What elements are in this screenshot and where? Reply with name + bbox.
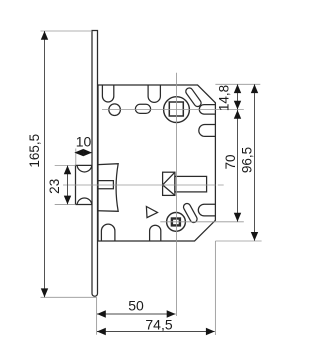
right edge notch N1 (199, 105, 215, 115)
arrow 96,5 bottom (251, 232, 258, 241)
cover hole circle (109, 104, 121, 116)
ext latch face vertical (75, 149, 77, 166)
ext case top right (215, 83, 260, 85)
triangle mark (146, 207, 157, 218)
ext latch top (55, 165, 76, 167)
faceplate (92, 31, 98, 297)
dim line 23 (67, 166, 69, 205)
dimension lines (45, 31, 255, 332)
arrow 50 left (97, 310, 106, 317)
arrowheads (41, 31, 258, 335)
arrow 23 top (64, 166, 71, 175)
latch bolt (76, 165, 93, 204)
dim line 70 (237, 110, 239, 222)
latch bolt top arc (77, 165, 92, 172)
spindle square hole (169, 102, 183, 116)
dim line 96,5 (254, 84, 256, 241)
cover slot oval (135, 104, 150, 113)
dim line 50 (97, 313, 176, 315)
ext bottom right vertical (214, 241, 216, 335)
ext faceplate bottom (41, 296, 97, 298)
svg-text:14,8: 14,8 (217, 85, 232, 111)
key cylinder circle (167, 213, 186, 232)
centerlines (63, 73, 244, 316)
fixing slot B (182, 202, 198, 224)
deadbolt head (163, 172, 175, 195)
arrow 74,5 right (206, 328, 215, 335)
arrow 50 right (167, 310, 176, 317)
arrow 70 top (234, 110, 241, 119)
arrow 165,5 bottom (41, 288, 48, 297)
svg-text:165,5: 165,5 (27, 134, 42, 168)
top screw notch U1 (102, 85, 113, 102)
arrow 10 right (83, 149, 92, 156)
latch spring box (98, 181, 113, 189)
bottom screw notch U4 (150, 225, 161, 240)
svg-text:74,5: 74,5 (145, 317, 172, 333)
arrow 70 bottom (234, 213, 241, 222)
arrow 165,5 top (41, 31, 48, 40)
dim line 14,8 (237, 84, 239, 109)
dim line 74,5 (97, 331, 215, 333)
spindle follower circle (164, 97, 190, 123)
right edge notch N2 (199, 125, 216, 137)
svg-text:50: 50 (128, 298, 144, 314)
svg-text:23: 23 (47, 179, 62, 194)
arrow 14,8 top (234, 84, 241, 93)
latch bolt bottom arc (77, 198, 92, 205)
right edge notch N3 (198, 204, 215, 216)
svg-text:96,5: 96,5 (240, 147, 255, 173)
arrow 96,5 top (251, 84, 258, 93)
deadbolt body (175, 176, 207, 192)
latch/deadbolt horizontal centerline (63, 184, 224, 186)
ext latch bottom (55, 203, 76, 205)
keyhole horizontal centerline (160, 221, 244, 223)
ext bottom left vertical (96, 298, 98, 335)
dim line 165,5 (44, 31, 46, 297)
bottom screw notch U3 (101, 224, 115, 240)
top screw notch U2 (148, 85, 160, 102)
lock case outline (98, 85, 215, 241)
fixing slot A (184, 87, 202, 108)
vertical centerline (176, 73, 178, 316)
svg-text:70: 70 (223, 154, 238, 169)
svg-text:10: 10 (76, 134, 92, 150)
arrow 23 bottom (64, 196, 71, 205)
extension lines (41, 31, 262, 335)
arrow 14,8 bottom (234, 101, 241, 110)
latch guide block (98, 164, 118, 212)
arrow 10 left (74, 149, 83, 156)
arrow 74,5 left (97, 328, 106, 335)
dim line 10 (76, 152, 92, 154)
deadbolt chevron (163, 172, 175, 195)
ext case bottom right (215, 240, 261, 242)
key cylinder square (172, 219, 180, 226)
spindle horizontal centerline (102, 109, 244, 111)
ext faceplate top (41, 30, 93, 32)
